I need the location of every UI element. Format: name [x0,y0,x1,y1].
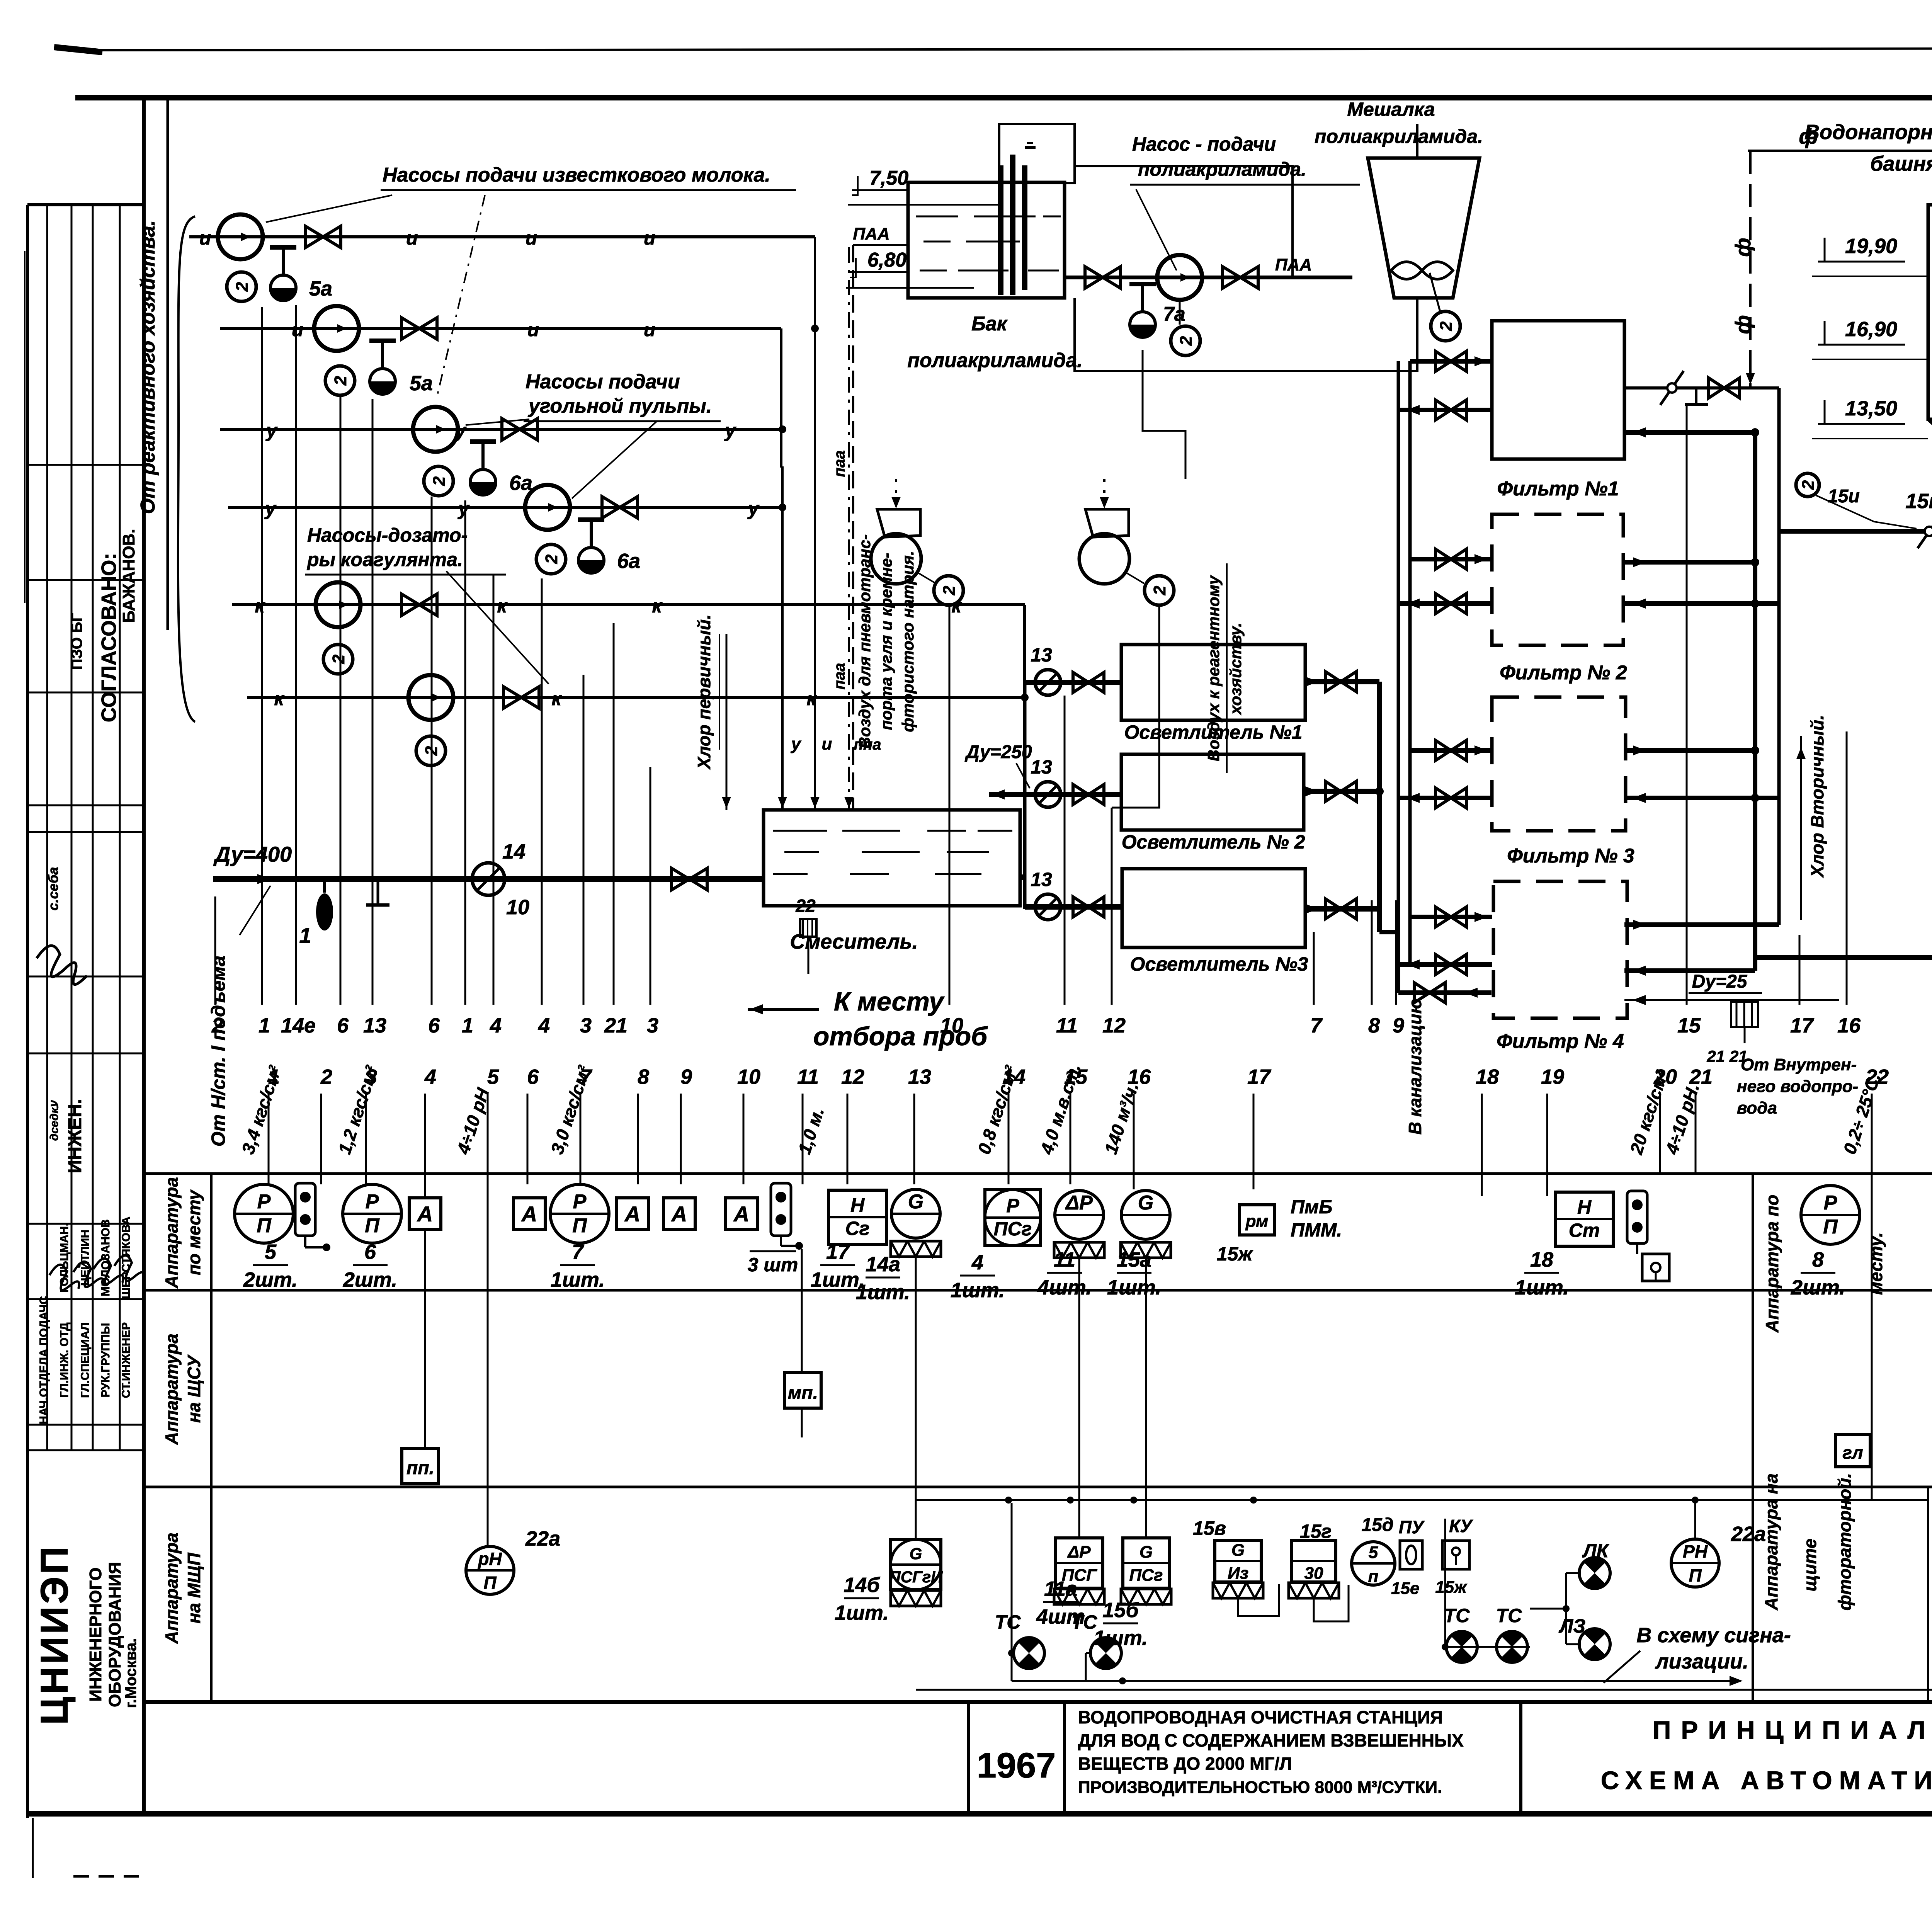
table drop line pos 1 [268,1094,270,1184]
stamp column row lines [27,464,144,466]
automat А box 3 [617,1198,648,1230]
svg-text:2: 2 [422,746,441,756]
svg-text:и: и [644,227,656,249]
svg-text:2: 2 [542,554,561,564]
svg-text:у: у [264,498,277,519]
svg-text:ОБОРУДОВАНИЯ: ОБОРУДОВАНИЯ [105,1562,124,1707]
electrode symbol pos.5 [295,1183,315,1236]
svg-text:Сг: Сг [845,1218,870,1239]
filter right rows [1624,430,1755,435]
svg-text:2: 2 [1150,585,1169,595]
svg-text:Водонапорная: Водонапорная [1804,121,1932,144]
mixer propeller [1391,262,1453,279]
svg-text:А: А [521,1202,537,1226]
instrument Н/Ст pos.18 fluorination [1555,1192,1613,1246]
svg-text:15е: 15е [1391,1579,1419,1598]
drawing area left frame [142,98,146,1814]
svg-text:на МЩП: на МЩП [184,1553,204,1624]
pump known lime 1 [218,214,263,259]
instrument Р/ПСг pos.4 [985,1190,1041,1245]
svg-text:по месту: по месту [184,1189,204,1275]
svg-text:G: G [910,1544,922,1563]
svg-text:паа: паа [831,451,848,477]
svg-text:5а: 5а [410,372,433,395]
svg-text:10: 10 [737,1065,760,1089]
instrument Н/Сг pos.17 [828,1190,886,1244]
motor paa pump [1171,326,1200,356]
svg-text:4: 4 [971,1251,983,1274]
svg-text:6,80: 6,80 [867,249,906,271]
svg-text:22а: 22а [525,1527,560,1550]
pressure probe pos.1 [323,879,326,893]
instrument рм pos.15ж [1240,1205,1274,1235]
filter N2 tank dashed [1492,514,1623,645]
svg-text:к: к [274,688,285,709]
valve coal 2 [602,497,620,518]
motor 15и [1796,473,1819,497]
T probe on main line [377,879,379,905]
svg-text:Н: Н [1577,1196,1592,1218]
pump coagulant 1 [316,582,361,627]
svg-text:и: и [292,319,304,340]
svg-text:у: у [457,498,470,519]
svg-text:ПУ: ПУ [1399,1517,1425,1537]
svg-text:СТ.ИНЖЕНЕР: СТ.ИНЖЕНЕР [120,1322,133,1398]
drop line to label 4 [493,575,495,1005]
instrument 5/п pos.15д [1352,1542,1395,1585]
svg-text:К месту: К месту [834,987,945,1016]
svg-text:1шт.: 1шт. [856,1281,910,1304]
svg-text:2: 2 [1437,321,1456,331]
svg-text:МОЛОЗАНОВ: МОЛОЗАНОВ [99,1219,112,1296]
svg-text:7а: 7а [1163,303,1185,325]
drop line to label 13 [372,399,374,1005]
instrument Р/П pos.7 [550,1184,609,1243]
svg-text:5: 5 [487,1065,499,1089]
svg-text:гл: гл [1842,1442,1863,1463]
svg-text:и: и [527,319,539,340]
clean water line to reservoirs [1755,955,1932,960]
blower 1 air line [895,479,897,509]
automat А box 1 [409,1198,441,1230]
svg-text:к: к [652,595,663,617]
filter inlet row y=1942 [1410,748,1492,753]
svg-text:ТС: ТС [995,1611,1021,1633]
instrument Р/П pos.5 [235,1184,293,1243]
svg-text:1967: 1967 [977,1746,1056,1785]
main line Ду=400 from pump station [213,876,764,882]
svg-text:1шт.: 1шт. [835,1601,889,1624]
svg-text:2: 2 [329,654,348,664]
svg-text:18: 18 [1476,1065,1499,1089]
svg-text:1шт.: 1шт. [951,1279,1005,1302]
svg-text:ПмБ: ПмБ [1291,1196,1332,1218]
filter right collector A [1753,432,1757,971]
sheet bottom frame line [27,1811,1932,1817]
svg-text:ПСГгИ: ПСГгИ [889,1568,943,1586]
svg-text:и: и [644,319,656,340]
svg-text:2: 2 [430,476,449,486]
motor pump lime 1 [227,272,256,301]
table drop line pos 9 [680,1094,682,1184]
instrument G/ПСг pos.15б [1123,1538,1169,1588]
svg-text:30: 30 [1304,1564,1323,1583]
svg-text:Насосы подачи: Насосы подачи [526,371,680,393]
svg-text:15к: 15к [1905,490,1932,513]
valve coal 1 [502,418,520,440]
wire G15а down to 15б [1145,1259,1147,1537]
clarifier feed row 1 [1025,680,1121,685]
svg-text:Ст: Ст [1569,1220,1600,1241]
table drop line pos 21 [1695,1094,1697,1174]
table drop line pos 22 [1871,1094,1873,1499]
table drop line pos 18 [1481,1094,1483,1196]
table drop line pos 3 [365,1094,367,1184]
wire lamps ЛК ЛЗ [1566,1572,1579,1574]
svg-text:ТС: ТС [1444,1605,1470,1626]
valve on main line [672,868,689,890]
svg-text:14а: 14а [866,1253,900,1276]
blower drop lines [949,605,951,1005]
svg-text:ЛЗ: ЛЗ [1559,1615,1585,1637]
svg-text:22а: 22а [1731,1522,1766,1546]
svg-text:От реактивного хозяйства.: От реактивного хозяйства. [137,220,159,514]
svg-text:8: 8 [638,1065,649,1089]
instrument G pos.14а [891,1189,940,1238]
svg-text:к: к [497,595,508,617]
valve row2 [1073,784,1088,805]
phi horizontal line [1748,150,1932,152]
svg-text:ГЛ.ИНЖ. ОТД: ГЛ.ИНЖ. ОТД [58,1323,71,1398]
lime line 1 (и) [189,235,815,238]
svg-text:Р: Р [257,1191,271,1213]
svg-text:Аппаратура: Аппаратура [162,1334,182,1445]
svg-text:ЦНИИЭП: ЦНИИЭП [33,1544,76,1725]
svg-text:Осветлитель № 2: Осветлитель № 2 [1122,831,1305,853]
svg-text:В канализацию: В канализацию [1405,998,1425,1135]
svg-text:ВЕЩЕСТВ ДО 2000 МГ/Л: ВЕЩЕСТВ ДО 2000 МГ/Л [1078,1754,1292,1774]
svg-text:G: G [1138,1192,1153,1214]
paa pump drop line [1143,350,1185,479]
blower 2 motor [1145,576,1174,605]
svg-text:П: П [1823,1216,1838,1238]
device КУ [1442,1541,1469,1569]
svg-text:Аппаратура по: Аппаратура по [1762,1195,1782,1333]
wire МП relay [801,1249,803,1373]
svg-text:9: 9 [680,1065,692,1089]
svg-text:с.себа: с.себа [45,867,61,911]
svg-text:ЛК: ЛК [1582,1540,1609,1561]
motor pump coagulant 1 [323,645,353,674]
flow sensor pos.14 [472,863,505,895]
svg-text:паа: паа [831,663,848,690]
blower 1 motor [934,576,963,605]
svg-text:ГОЛЬЦМАН.: ГОЛЬЦМАН. [58,1223,71,1293]
pump coal 2 [525,485,570,530]
svg-text:РН: РН [1683,1541,1708,1561]
drain line to sewer [1398,990,1492,995]
svg-text:8: 8 [1812,1248,1824,1271]
coagulant line 2 (к) [247,696,1025,699]
wire ΔР down to 11а [1078,1259,1080,1537]
svg-text:2: 2 [233,282,252,292]
filter feed-drain verticals [1397,361,1400,993]
level ball 6а line3 [470,469,496,495]
svg-text:3: 3 [647,1014,658,1037]
svg-text:7: 7 [1310,1014,1323,1037]
drop line to label 4 [541,578,543,1005]
automat А box 2 [514,1198,545,1230]
svg-text:ПАА: ПАА [1275,255,1312,274]
valve row1 [1073,672,1088,692]
valve after paa pump [1223,267,1240,288]
svg-text:2: 2 [331,376,350,386]
wire lamps left pair [1011,1503,1013,1681]
lamp ЛЗ [1579,1629,1610,1660]
svg-text:21: 21 [604,1014,628,1037]
flow sensor 13 row2 [1035,782,1061,807]
clarifier outlet valves [1325,672,1341,692]
paa pump suction line [1075,166,1293,277]
coal line 1 (у) [220,428,782,431]
coagulant line 1 (к) [232,603,1025,606]
svg-text:рН: рН [477,1549,502,1569]
svg-text:П: П [483,1573,497,1593]
svg-text:рм: рм [1245,1212,1269,1231]
filter inlet row y=2373 [1410,915,1492,919]
paper bottom-left edge marks [32,1818,34,1878]
motor pump coal 1 [424,466,453,496]
table top line [144,1172,1932,1175]
svg-text:П: П [1689,1565,1702,1585]
svg-text:Мешалка: Мешалка [1347,99,1435,120]
sheet top paper edge line [77,48,1932,50]
drop line to label 6 [431,497,433,1005]
svg-text:Осветлитель №3: Осветлитель №3 [1130,953,1308,975]
grid device pos.21 [1731,1002,1758,1027]
svg-text:5а: 5а [309,277,332,300]
svg-text:19: 19 [1541,1065,1564,1089]
mixer outlet to tank [1075,298,1417,371]
bracket От реактивного хозяйства [178,216,195,722]
svg-text:и: и [822,735,832,754]
table label column divider [210,1174,213,1702]
svg-text:у: у [791,735,802,754]
lamp ТС right pair 2 [1497,1631,1527,1662]
svg-text:ΔР: ΔР [1065,1192,1093,1214]
svg-text:А: А [417,1202,433,1226]
reagent drop verticals to smesitel [814,237,816,810]
wire А to ПП relay [424,1230,426,1448]
blower 2 [1079,534,1129,584]
svg-text:Насос - подачи: Насос - подачи [1132,133,1276,155]
svg-text:ГЛ.СПЕЦИАЛ: ГЛ.СПЕЦИАЛ [79,1322,92,1398]
pump coagulant 2 [408,675,453,720]
svg-text:11а: 11а [1044,1577,1077,1601]
svg-text:ПММ.: ПММ. [1291,1219,1342,1241]
band3 bottom bus [1012,1680,1584,1682]
svg-text:месту.: месту. [1866,1232,1886,1295]
drop line to label 7 [1313,932,1315,1005]
flow sensor 13 row3 [1035,894,1061,920]
relay box ПП [402,1448,439,1484]
svg-text:дседкע: дседкע [48,1100,61,1141]
drop line to label 10 [949,607,951,1005]
filter N3 tank dashed [1492,697,1626,831]
svg-text:13: 13 [1031,756,1052,778]
svg-text:14: 14 [502,840,526,863]
table drop line pos 5 [487,1094,489,1546]
stamp column outer edge [26,205,29,1818]
coagulant drops to manifold [1023,605,1026,682]
T probe filter line [1695,388,1697,405]
filter outlet row y=2496 [1398,962,1492,967]
svg-text:19,90: 19,90 [1845,235,1897,258]
svg-text:мп.: мп. [788,1383,818,1403]
svg-text:к: к [255,595,265,617]
svg-text:G: G [908,1191,923,1213]
svg-text:ПСг: ПСг [1129,1566,1163,1585]
blower 1 [871,534,921,584]
svg-text:5: 5 [265,1240,277,1264]
paa tank electrodes [998,165,1003,295]
title block cell dividers [967,1702,970,1814]
svg-text:ТС: ТС [1071,1611,1098,1633]
drop line to label 1 [261,307,263,1005]
svg-text:ПАА: ПАА [853,225,889,243]
title block thin upper line [916,1689,1932,1691]
filter inlet row y=1447 [1410,557,1492,561]
switch box with contact [1642,1254,1669,1281]
water tower tank [1928,205,1932,419]
svg-text:7: 7 [572,1240,585,1264]
pump lime 2 [314,306,359,351]
svg-text:15ж: 15ж [1217,1243,1253,1265]
svg-text:G: G [1231,1541,1245,1560]
paa tank Бак полиакриламида [908,182,1065,298]
svg-text:фтораторной.: фтораторной. [1835,1473,1855,1611]
table divider x4990 [1927,1487,1929,1702]
svg-text:ИНЖЕНЕРНОГО: ИНЖЕНЕРНОГО [86,1567,105,1702]
electrode symbol 3шт [771,1183,791,1236]
svg-text:г.Москва.: г.Москва. [122,1638,139,1708]
svg-text:Хлор первичный.: Хлор первичный. [694,614,714,770]
svg-text:6: 6 [337,1014,349,1037]
instrument Р/П pos.8 [1801,1186,1860,1244]
clarifier feed row 3 [1025,904,1122,910]
svg-text:13: 13 [363,1014,386,1037]
svg-text:15г: 15г [1300,1521,1332,1542]
instrument рН/П pos.22а left [466,1546,514,1594]
svg-text:6а: 6а [617,549,640,573]
svg-text:17: 17 [826,1240,850,1264]
instrument ΔР pos.11 [1055,1191,1104,1239]
svg-text:1шт.: 1шт. [1107,1276,1161,1299]
motor pump lime 2 [325,366,355,395]
svg-text:полиакриламида.: полиакриламида. [1138,158,1306,180]
stamp signature squiggle [37,946,87,984]
filter inlet row y=935 [1410,359,1492,364]
relay box МП [784,1373,821,1408]
svg-text:2шт.: 2шт. [243,1268,298,1291]
drop line to label 14е [295,305,297,1005]
instrument ΔР/ПСГ pos.11а [1056,1538,1103,1588]
instrument 30 pos.15г [1292,1540,1336,1582]
paa drop line to smesitel [848,247,850,810]
drop line to label 12 [1111,808,1113,1005]
valve row3 [1073,897,1088,917]
svg-text:9: 9 [1393,1014,1404,1037]
table drop line pos 4 [424,1094,426,1198]
stamp signatures column [49,1265,79,1290]
svg-text:П: П [572,1214,587,1237]
svg-text:у: у [747,498,760,519]
drop line to label 16 [1846,731,1848,1005]
lamp ЛК [1579,1558,1610,1589]
svg-text:А: А [671,1202,687,1226]
svg-text:Насосы подачи известкового: Насосы подачи известкового молока. [383,164,770,186]
svg-text:15б: 15б [1102,1599,1139,1622]
svg-text:П: П [365,1214,380,1237]
svg-text:4: 4 [424,1065,436,1089]
svg-text:ДЛЯ ВОД С СОДЕРЖАНИЕМ ВЗВЕШЕНН: ДЛЯ ВОД С СОДЕРЖАНИЕМ ВЗВЕШЕННЫХ [1078,1730,1464,1750]
table drop line pos 8 [637,1094,639,1184]
drop line to label 21 [613,623,615,1005]
svg-text:П: П [257,1214,272,1237]
level ball 5а line1 [270,275,296,301]
pump 7а paa [1157,255,1202,300]
svg-text:хозяйству.: хозяйству. [1226,623,1245,715]
drop line to label 6 [340,396,342,1005]
svg-text:лизации.: лизации. [1655,1650,1748,1673]
wire 15в 15г link down [1238,1584,1279,1616]
clarifier tank 1 [1121,645,1305,720]
table drop line pos 7 [580,1094,582,1184]
table drop line pos 19 [1546,1094,1548,1196]
automat А box 4 [663,1198,695,1230]
sheet top frame line [75,95,1932,100]
svg-text:у: у [724,420,736,441]
lamp ТС right pair 1 [1446,1631,1477,1662]
table band1 bottom line [144,1289,1932,1292]
drop line to label 11 [1064,696,1066,1005]
svg-text:Фильтр №1: Фильтр №1 [1497,478,1619,500]
svg-text:4: 4 [490,1014,502,1037]
svg-text:6: 6 [527,1065,539,1089]
svg-text:13,50: 13,50 [1845,397,1897,420]
filtered water supply line Ду=500 [1779,529,1932,534]
svg-text:Фильтр № 2: Фильтр № 2 [1500,662,1627,684]
svg-text:Воздух к реагентному: Воздух к реагентному [1204,575,1223,761]
svg-text:и: и [526,227,537,249]
lime line 2 (и) [220,327,781,330]
drop line to label 9 [1395,900,1397,1005]
valve before paa pump [1085,267,1103,288]
level ball 5а line2 [370,369,395,394]
svg-text:18: 18 [1530,1248,1553,1271]
valve coagulant 1 [401,594,419,616]
motor pump coal 2 [536,544,566,574]
svg-text:ф: ф [1731,238,1755,257]
valve coagulant 2 [503,687,521,708]
smesitel outlet to clarifier manifold [1020,874,1025,880]
valve lime 1 [305,226,323,248]
svg-text:ВОДОПРОВОДНАЯ ОЧИСТНАЯ СТАНЦИЯ: ВОДОПРОВОДНАЯ ОЧИСТНАЯ СТАНЦИЯ [1078,1707,1443,1727]
automat А box 5 [726,1198,757,1230]
svg-text:12: 12 [841,1065,864,1089]
svg-text:Р: Р [1006,1195,1019,1216]
motor pump coagulant 2 [416,736,446,765]
